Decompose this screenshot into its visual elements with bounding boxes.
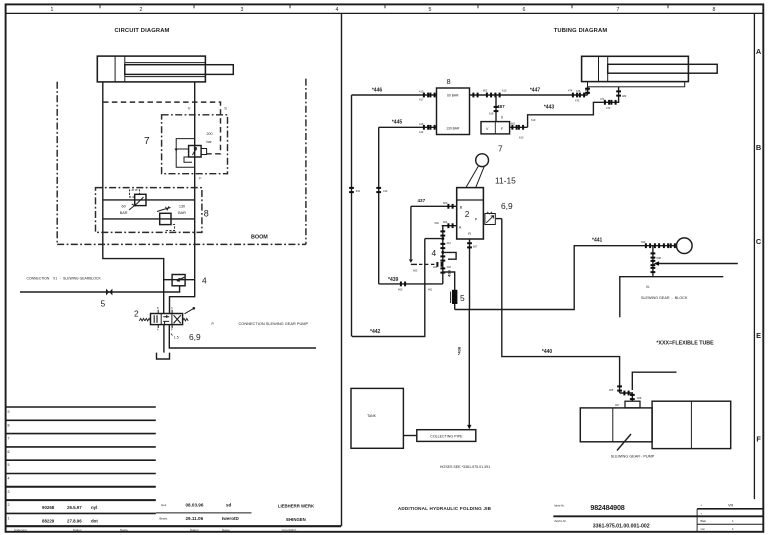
svg-text:ADDITIONAL HYDRAULIC FOLDING J: ADDITIONAL HYDRAULIC FOLDING JIB [398,506,492,511]
wire left main [103,82,164,314]
svg-text:XL: XL [646,285,650,289]
svg-text:413: 413 [419,130,424,134]
svg-text:IwerotD: IwerotD [222,516,240,521]
footer labels [14,528,128,532]
svg-text:1: 1 [8,516,10,520]
tube *445 [379,120,437,134]
wire riser 445 [376,127,388,284]
dash-dot box 7 [162,115,228,174]
svg-text:R: R [468,232,471,236]
svg-text:403: 403 [447,265,452,269]
svg-text:BAR: BAR [120,211,128,215]
ident block [553,503,763,530]
wire to tank [163,325,165,353]
wire tank to pipe [403,435,416,437]
svg-text:60: 60 [121,205,125,209]
pump label leader [611,434,655,459]
revision row 2 [42,505,97,510]
svg-text:sd: sd [226,503,232,508]
coupling 5 symbol [106,289,112,296]
wire right main [194,82,196,280]
svg-text:Datum: Datum [73,528,82,532]
svg-text:413: 413 [383,189,388,193]
svg-text:607: 607 [473,245,478,249]
revision row numbers [8,410,10,520]
row letters A-F [756,47,762,444]
svg-text:*441: *441 [592,238,603,244]
svg-text:BOOM: BOOM [251,235,268,241]
svg-text:2: 2 [134,308,139,318]
revision table [6,407,156,513]
valve 4 column [433,221,451,284]
svg-text:6: 6 [523,7,526,13]
svg-text:602: 602 [483,89,488,93]
svg-text:CONNECTION X1 - SLEWING: CONNECTION X1 - SLEWING GEARBLOCK [27,276,102,280]
svg-text:603: 603 [413,269,418,273]
svg-text:SLEWING GEAR - PUMP: SLEWING GEAR - PUMP [611,455,655,459]
svg-text:7: 7 [8,437,10,441]
check valve 4 wire [164,279,195,281]
svg-text:11-15: 11-15 [495,176,516,186]
svg-text:B: B [756,143,761,152]
svg-text:4: 4 [202,275,207,285]
wire riser 442 left [349,95,361,337]
svg-text:LIEBHERR WERK: LIEBHERR WERK [278,504,315,509]
svg-text:8: 8 [8,423,10,427]
svg-text:3: 3 [241,7,244,13]
sheet box [697,503,763,532]
bottom thick line [6,525,341,527]
svg-text:V: V [188,106,191,111]
RIGHTDIAGRAM [349,28,738,469]
pump P1 [580,401,730,448]
wire A port [442,220,457,228]
svg-text:608: 608 [657,256,662,260]
svg-text:von: von [701,528,706,531]
revision row 1 [42,519,98,524]
svg-text:600: 600 [443,201,448,205]
coupling 5 wire [20,286,180,292]
reducing valve 60 BAR [129,190,146,210]
svg-text:487: 487 [497,104,505,109]
svg-text:*XXX=FLEXIBLE TUBE: *XXX=FLEXIBLE TUBE [656,340,714,346]
svg-text:4: 4 [336,7,339,13]
control block 2 [457,188,484,239]
wire 442 to column [425,238,443,240]
svg-text:HOSES SEE *3361-975.01.391: HOSES SEE *3361-975.01.391 [440,465,490,469]
svg-text:*445: *445 [392,120,403,126]
gauge 7 on block 2 [466,154,489,188]
svg-text:476: 476 [576,89,581,93]
svg-text:130 BAR: 130 BAR [446,126,460,130]
svg-text:982484908: 982484908 [590,503,624,512]
svg-text:6: 6 [8,450,10,454]
svg-text:438: 438 [447,269,452,276]
svg-text:601: 601 [511,121,516,125]
svg-text:Bearb.: Bearb. [160,517,169,521]
check valve 4 [172,275,185,286]
column ticks [100,4,668,8]
svg-text:474: 474 [568,89,573,93]
valve 2 port letters [157,307,173,332]
svg-text:Zeichn-Nr.: Zeichn-Nr. [554,519,567,523]
tank symbol [157,353,170,359]
svg-text:60 BAR: 60 BAR [447,94,459,98]
svg-text:619: 619 [489,112,494,116]
svg-text:Änderung: Änderung [14,528,27,532]
svg-text:470: 470 [606,106,611,110]
svg-text:410: 410 [419,90,424,94]
svg-text:415: 415 [419,122,424,126]
valve box V F [481,122,510,134]
svg-text:3361-975.01.00.001-002: 3361-975.01.00.001-002 [593,524,650,530]
svg-text:CONNECTION SLEWING GEAR PUMP: CONNECTION SLEWING GEAR PUMP [239,321,309,326]
TITLEBLOCK [6,407,764,532]
svg-text:29.11.06: 29.11.06 [186,516,204,521]
dash-dot box 8 [96,188,202,233]
tube *438 riser to pipe [457,310,472,430]
svg-text:5: 5 [429,7,432,13]
svg-text:88229: 88229 [42,519,55,524]
svg-text:7: 7 [617,7,620,13]
svg-text:200: 200 [207,132,213,136]
svg-text:417: 417 [419,98,424,102]
svg-text:bar: bar [207,140,213,144]
svg-text:Copyright(c): Copyright(c) [282,528,297,532]
svg-text:BAR: BAR [178,211,186,215]
svg-text:2: 2 [8,503,10,507]
svg-text:26.5.97: 26.5.97 [67,505,82,510]
svg-text:*443: *443 [544,105,555,111]
svg-text:475: 475 [575,99,580,103]
relief valve 200 bar [175,139,207,168]
fitting 487 branch [489,95,505,122]
svg-text:400: 400 [398,288,403,292]
svg-text:602: 602 [435,221,440,225]
tube *443 [510,87,627,140]
svg-text:*447: *447 [530,88,541,94]
pilot valve at P [485,212,495,225]
svg-text:4: 4 [8,477,10,481]
svg-text:*442: *442 [370,329,381,335]
svg-text:9: 9 [8,410,10,414]
svg-text:130: 130 [179,205,185,209]
column numbers 1-8 [51,7,716,13]
svg-text:406: 406 [637,396,642,400]
svg-text:2: 2 [140,7,143,13]
divider line between diagrams [341,13,343,526]
svg-text:6,9: 6,9 [501,201,513,211]
value 200 bar [207,132,213,144]
svg-text:610: 610 [356,189,361,193]
svg-text:CIRCUIT DIAGRAM: CIRCUIT DIAGRAM [114,28,169,34]
LEFTDIAGRAM [20,28,316,359]
svg-text:A: A [459,225,462,229]
pump inlet fittings [609,372,677,407]
svg-text:Gez.: Gez. [161,503,167,507]
tube *441 [455,238,692,310]
svg-text:*439: *439 [388,277,399,283]
svg-text:1.5: 1.5 [174,336,179,340]
svg-text:8: 8 [204,209,209,219]
svg-text:1: 1 [51,7,54,13]
wire arrow port [654,261,738,265]
svg-text:3: 3 [8,490,10,494]
svg-text:437: 437 [418,198,426,203]
svg-text:SLEWING GEAR - BLOCK: SLEWING GEAR - BLOCK [641,296,688,300]
svg-text:dot: dot [91,519,98,524]
svg-text:Datum: Datum [190,528,199,532]
svg-text:7: 7 [144,136,150,147]
tube *440 [496,219,622,393]
dashed box V S [103,102,221,154]
filter 5 [443,272,458,310]
svg-text:609: 609 [641,240,646,244]
tube *447 [470,88,590,103]
svg-text:6,9: 6,9 [189,332,201,342]
svg-text:P: P [475,218,478,222]
svg-text:*446: *446 [372,88,383,94]
dash-dot box BOOM [57,79,306,245]
manifold block 8 [437,77,470,134]
svg-text:5: 5 [460,293,465,303]
svg-text:610: 610 [502,89,507,93]
svg-text:5: 5 [101,299,106,309]
tube *439 [379,277,443,292]
svg-text:405: 405 [609,388,614,392]
svg-text:*438: *438 [457,346,462,355]
svg-text:C: C [756,237,762,246]
value 60 BAR [120,205,128,215]
collecting pipe [417,430,476,442]
svg-text:401: 401 [428,288,433,292]
svg-text:27.8.96: 27.8.96 [67,519,82,524]
svg-text:Blatt: Blatt [701,519,707,523]
svg-text:TANK: TANK [367,414,377,418]
svg-text:90268: 90268 [42,505,55,510]
svg-text:08.03.96: 08.03.96 [186,503,204,508]
gez bearb block [156,503,252,532]
value 130 BAR [178,205,186,215]
wire 60bar [103,199,195,201]
tube *446 [352,88,437,102]
cylinder left port wire [576,87,590,95]
tube *437 [411,198,457,209]
tank [351,388,403,448]
svg-text:7: 7 [498,144,503,154]
svg-text:A: A [756,47,762,56]
svg-text:Ident-Nr.: Ident-Nr. [554,503,565,507]
svg-text:E: E [756,331,761,340]
svg-text:8: 8 [446,77,450,86]
svg-text:Name: Name [120,528,128,532]
svg-text:610: 610 [519,136,524,140]
svg-text:*440: *440 [542,349,553,355]
svg-text:5: 5 [8,463,10,467]
cylinder C1 [97,56,233,82]
svg-text:P.: P. [212,322,215,326]
wire z-stub [443,252,456,259]
svg-text:619: 619 [531,118,536,122]
svg-text:nyl: nyl [91,505,97,510]
svg-text:412: 412 [447,241,452,245]
svg-text:8: 8 [713,7,716,13]
svg-text:S: S [224,105,227,110]
svg-text:402: 402 [433,265,438,269]
svg-text:COLLECTING PIPE: COLLECTING PIPE [430,434,463,438]
wire 130bar [103,218,195,220]
cylinder right [582,56,718,86]
slewing block outline [620,277,724,318]
svg-text:471: 471 [600,97,605,101]
maker name [278,504,315,532]
svg-text:Name: Name [222,528,230,532]
svg-text:VR: VR [728,503,734,507]
svg-text:604: 604 [443,220,448,224]
wire bend to valve [170,280,195,314]
directional valve 2 [139,307,195,336]
svg-text:B: B [460,206,463,210]
svg-text:482: 482 [622,94,627,98]
wire 437 riser [409,206,437,272]
svg-text:EHINGEN: EHINGEN [286,517,306,522]
svg-text:4: 4 [432,248,437,258]
wire R port riser [467,239,478,310]
reducing valve 130 BAR [157,206,175,230]
svg-text:2: 2 [465,209,470,219]
svg-text:F: F [756,435,761,444]
slewing block column [651,246,662,276]
wire P to pump [169,325,316,348]
tube *442 [352,239,425,337]
svg-text:407: 407 [615,403,620,407]
svg-text:TUBING DIAGRAM: TUBING DIAGRAM [554,28,608,34]
